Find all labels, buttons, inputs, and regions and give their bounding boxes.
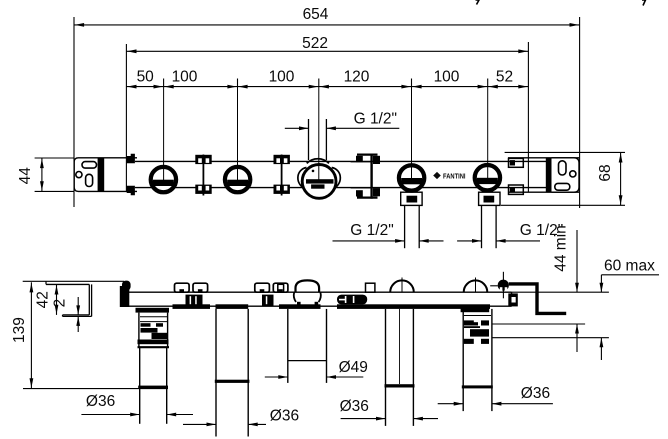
dimension line 2 upper (77, 297, 79, 315)
svg-text:100: 100 (172, 69, 198, 86)
pipe1 black band a (141, 328, 158, 333)
pipe5 mark row b (464, 339, 474, 344)
svg-text:120: 120 (344, 69, 370, 86)
pipe5 black band (470, 329, 489, 336)
svg-text:44 min: 44 min (553, 225, 570, 272)
dim line 60max lower (600, 338, 602, 360)
clamp black block tl (356, 156, 363, 162)
pipe1 black band c (138, 340, 169, 345)
leader right V4 (419, 240, 443, 242)
centerline V3 (318, 87, 320, 183)
dimension line 42 (56, 284, 58, 315)
bracket web right (91, 284, 93, 316)
pipe3 joint line (288, 360, 327, 362)
dimension line 522 (126, 50, 528, 52)
valve V3 body (302, 165, 336, 199)
valve V3 hex flange (298, 168, 307, 190)
left end plate outline (74, 158, 137, 192)
leader left G1/2 top (285, 127, 309, 129)
pipe1 connector right (167, 313, 169, 348)
small clip left of hump V4 (366, 283, 375, 292)
clip inner mark (260, 289, 265, 291)
clip pair 2 bottom block (274, 185, 290, 194)
leader right G1/2 top (326, 127, 399, 129)
clip pair 1 bottom block (195, 185, 211, 194)
extension line bottom (139) (23, 388, 168, 390)
clip pair 1 stem (202, 155, 204, 196)
tick/centerline upper at 318.8 (318, 79, 320, 87)
pipe2 left (215, 309, 217, 437)
valve V3 top bump (307, 159, 329, 164)
svg-text:522: 522 (302, 35, 328, 52)
svg-text:60 max: 60 max (604, 258, 655, 275)
rail bottom edge (135, 187, 546, 189)
extension line bottom (44) (35, 190, 75, 192)
clamp black block bl (356, 190, 363, 196)
pipe3 right (326, 309, 328, 383)
tick/centerline upper at 411.5 (411, 79, 413, 87)
pipe5 mark row a (464, 320, 474, 325)
dim line d36 pipe1 left (81, 414, 139, 416)
svg-text:FANTINI: FANTINI (443, 171, 466, 180)
svg-text:44: 44 (17, 167, 34, 185)
arrow at 528.4 (518, 85, 528, 89)
extension line top (68) (505, 151, 625, 153)
dim line 60max upper (600, 275, 602, 292)
pipe1 inner line 1 (140, 316, 167, 318)
dimension line row 50-100-100-120-100-52 (126, 86, 528, 88)
pipe1 connector left (138, 313, 140, 348)
pipe1 tube right (166, 348, 168, 424)
V4 stub left (404, 205, 406, 248)
pipe4 coupling (385, 384, 415, 387)
leader right V5 (496, 240, 540, 242)
bracket top plate / 139 extension (23, 280, 124, 282)
60max shelf line (601, 274, 659, 276)
V5 stub left (481, 205, 483, 248)
svg-text:100: 100 (434, 69, 460, 86)
svg-text:139: 139 (11, 317, 28, 343)
V4 outlet nut (407, 196, 418, 203)
left plate black divider (98, 158, 105, 192)
pipe4 left (385, 309, 387, 426)
extension line groove 2 (492, 337, 609, 339)
hump V4 centerline (401, 278, 403, 293)
wall plane extension (512, 291, 609, 293)
pipe2 coupling (215, 380, 250, 383)
dim line 44min lower (576, 324, 578, 352)
clamp bottom inner line (351, 187, 371, 189)
fitting leader line (490, 285, 498, 287)
pipe5 step line (464, 326, 480, 328)
svg-text:Ø36: Ø36 (340, 398, 369, 415)
clamp black block tr (373, 156, 380, 164)
outlet pipe elbow (509, 284, 566, 314)
dim line d36 pipe2 right (248, 423, 266, 425)
dome leg left (297, 302, 301, 306)
svg-text:G 1/2": G 1/2" (350, 222, 393, 239)
dimension line 654 (74, 24, 580, 26)
tick/centerline upper at 163.6 (163, 79, 165, 87)
V5 stub right (495, 205, 497, 248)
left plate vertical slot (86, 174, 93, 186)
arrow pair left of 163.6 (154, 85, 164, 89)
dimension line 139 (30, 282, 32, 388)
centerline V2 (237, 87, 239, 181)
bar bottom edge (121, 305, 512, 307)
top clip at 193.0 (193, 283, 208, 292)
fitting centerline (502, 272, 504, 299)
right plate black divider (546, 158, 552, 192)
bar right end (511, 292, 513, 306)
svg-text:2: 2 (51, 299, 68, 308)
clamp top inner line (351, 161, 371, 163)
pipe1 inner line 2 (140, 321, 167, 323)
clamp bottom cap (357, 197, 378, 199)
V5 outlet block (479, 192, 500, 205)
screw block 1 (186, 295, 203, 306)
right plate circle hole (570, 171, 576, 177)
valve V5 (473, 164, 501, 192)
clip inner mark (198, 289, 203, 291)
dome ear right (319, 292, 321, 302)
right rail clip top black part (510, 160, 515, 165)
svg-text:Ø36: Ø36 (270, 407, 299, 424)
bracket foot end (62, 315, 64, 317)
svg-text:Ø36: Ø36 (86, 393, 115, 410)
bar underside black band 172.5-210 (173, 304, 211, 309)
extension line right (654) (579, 17, 581, 208)
rail top edge (135, 160, 546, 162)
svg-text:50: 50 (137, 69, 155, 86)
top clip at 254.8 (255, 283, 270, 292)
cut-off mark 2 top edge (642, 0, 646, 6)
svg-text:G 1/2": G 1/2" (354, 111, 397, 128)
bar right end block (508, 293, 518, 306)
valve V1 (149, 165, 177, 193)
clamp top cap (357, 154, 378, 156)
hump V4 (390, 280, 414, 292)
logo diamond (433, 172, 441, 179)
dim line d36 pipe1 right (167, 414, 193, 416)
screw block 2 (262, 295, 274, 306)
clip inner mark (278, 289, 283, 291)
clamp stem (370, 154, 372, 199)
extension line top (44) (35, 157, 75, 159)
hump V5 centerline (475, 278, 477, 293)
bar underside black band 215.5-248.2 (216, 304, 249, 309)
pipe3 left (287, 309, 289, 383)
valve V3 lower slot (311, 184, 324, 188)
dim line d36 pipe4 right (413, 418, 438, 420)
svg-text:52: 52 (496, 69, 513, 86)
V4 stub right (418, 205, 420, 248)
V5 outlet nut (484, 196, 495, 203)
arrow at 126.4 (127, 85, 137, 89)
dome V3 (296, 280, 320, 292)
bar underside black band 337-490 (337, 304, 490, 309)
hump V5 (464, 280, 488, 292)
arrow pair left of 237.5 (227, 85, 237, 89)
clip inner mark (179, 289, 184, 291)
clamp block side view (337, 295, 367, 305)
pipe5 tiny mark (470, 322, 478, 325)
pipe1 top nut (136, 308, 170, 313)
svg-text:100: 100 (269, 69, 295, 86)
dim line d36 pipe2 left (183, 423, 216, 425)
bracket foot bottom (63, 315, 92, 317)
svg-text:654: 654 (303, 6, 329, 23)
bar left end cap black (120, 286, 130, 307)
pipe4 inner line (399, 309, 401, 384)
extension line right (522) (527, 42, 529, 193)
pipe1 black band b (152, 333, 168, 339)
bracket plate left end (45, 281, 47, 284)
small clip left of dome (278, 284, 284, 292)
dim line d36 pipe5 left (438, 403, 464, 405)
dim line d36 pipe5 right (492, 403, 553, 405)
extension line left (522) (125, 44, 127, 192)
clip pair 2 stem (281, 155, 283, 196)
right rail clip bottom (509, 185, 524, 194)
bracket foot top (63, 314, 90, 316)
dim line d49 right (327, 376, 364, 378)
pipe1 connector bottom (138, 346, 170, 348)
bar top edge (121, 291, 512, 293)
center port stub right line (325, 119, 327, 160)
pipe1 mark row (141, 323, 151, 327)
valve V2 (223, 165, 251, 193)
left rail hook bottom (127, 186, 135, 195)
bar underside black band 279-320.5 (279, 304, 321, 309)
right end plate rounded outline (552, 158, 580, 192)
leader left V5 (457, 240, 481, 242)
clip pair 1 top block (195, 155, 211, 164)
pipe5 coupling (462, 385, 493, 388)
right plate top edge (508, 157, 579, 159)
outlet fitting ball (498, 280, 509, 291)
dim line 44min upper (576, 230, 578, 292)
arrow pair left of 487.7 (478, 85, 488, 89)
bar right end notch (512, 297, 516, 303)
valve V3 slot (306, 179, 334, 183)
clip pair 2 top block (274, 155, 290, 164)
tick/centerline upper at 487.7 (487, 79, 489, 87)
centerline V5 (487, 87, 489, 179)
right plate vertical slot (559, 161, 567, 175)
leader left V4 (333, 240, 405, 242)
arrow pair left of 318.8 (309, 85, 319, 89)
extension line bottom (68) (501, 204, 625, 206)
svg-text:Ø49: Ø49 (339, 359, 368, 376)
dome ear left (294, 292, 296, 302)
bracket hook (122, 281, 131, 291)
dimension line 2 lower (77, 316, 79, 332)
right rail clip bottom black part (510, 187, 515, 192)
centerline V4 (411, 87, 413, 179)
extension line groove 1 (492, 323, 585, 325)
center port stub left line (308, 119, 310, 160)
left plate horizontal slot (82, 162, 97, 169)
left plate circle hole (76, 172, 82, 178)
valve V3 dot (312, 170, 315, 173)
tick/centerline upper at 237.5 (237, 79, 239, 87)
svg-text:42: 42 (35, 291, 52, 308)
extension line left (654) (73, 17, 75, 207)
pipe1 tube left (139, 348, 141, 424)
dimension line 44 (41, 158, 43, 191)
centerline V1 (163, 87, 165, 181)
dome leg right (315, 302, 319, 306)
top clip at 273.3 (273, 283, 288, 292)
bracket web left (88, 284, 90, 315)
svg-text:68: 68 (597, 164, 614, 181)
right plate horizontal slot (555, 183, 570, 190)
bracket top plate lower line (46, 283, 89, 285)
dim line d36 pipe4 left (341, 418, 386, 420)
pipe5 right (491, 309, 493, 411)
clamp black block br (373, 188, 380, 196)
pipe1 coupling (138, 386, 168, 389)
right plate bottom edge (508, 191, 579, 193)
pipe2 right (247, 309, 249, 437)
pipe4 right (412, 309, 414, 426)
right rail clip top (509, 158, 524, 167)
V4 outlet block (401, 192, 422, 205)
dimension line 68 (620, 152, 622, 205)
arrow pair left of 411.5 (401, 85, 411, 89)
left rail hook top (127, 154, 135, 163)
cut-off mark 1 top edge (476, 0, 480, 5)
pipe5 top nut (461, 308, 490, 313)
top clip at 174.5 (175, 283, 190, 292)
dim line d49 left (265, 376, 288, 378)
valve V4 (397, 164, 425, 192)
pipe5 left (462, 309, 464, 411)
pipe5 inner line (464, 315, 491, 317)
svg-text:Ø36: Ø36 (521, 385, 550, 402)
